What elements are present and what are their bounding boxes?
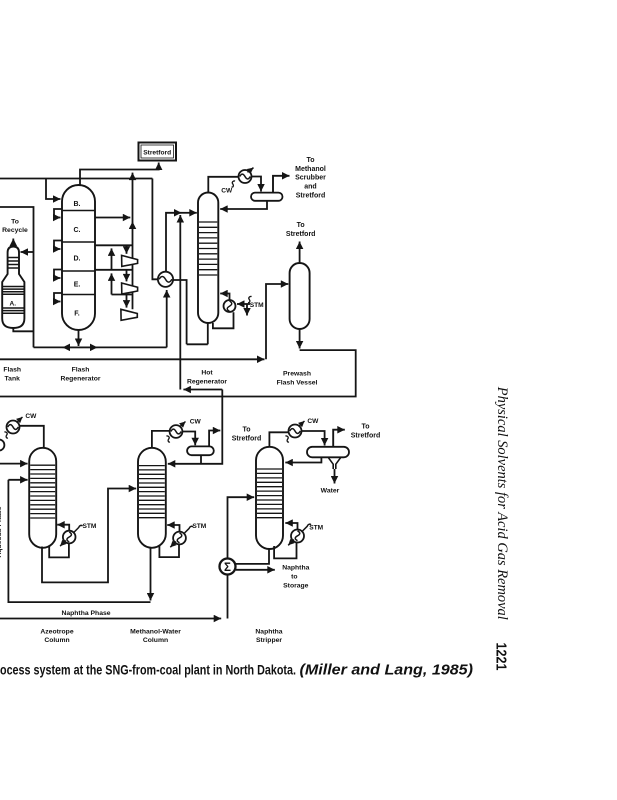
wire: mixer to naphtha stripper feed	[228, 497, 255, 558]
label: To Stretford (stripper)	[351, 424, 381, 440]
svg-text:Stretford: Stretford	[286, 231, 316, 238]
azeotrope column packing	[30, 465, 55, 518]
svg-text:Recycle: Recycle	[2, 227, 28, 234]
reboiler E3 (steam)	[224, 300, 236, 312]
svg-text:CW: CW	[25, 413, 37, 420]
label: Hot Regenerator	[187, 370, 227, 386]
svg-text:F.: F.	[74, 311, 80, 318]
wire: branch y389.5 to riser	[183, 389, 222, 391]
wire: naphtha phase line	[0, 618, 221, 620]
svg-text:Storage: Storage	[283, 582, 309, 589]
wire: MW overhead to condenser	[152, 431, 169, 448]
arrow: water out	[334, 469, 336, 484]
condenser E2 (CW)	[239, 170, 252, 183]
svg-text:STM: STM	[192, 523, 206, 530]
stripper condenser E8 (CW)	[289, 425, 302, 438]
wire: recycle riser x180.3 with arrow	[179, 215, 181, 390]
wire: cross exchanger to hot regenerator feed	[166, 213, 197, 272]
label: CW (hot regenerator condenser)	[221, 181, 235, 195]
wire: hot regenerator bottoms	[187, 323, 208, 344]
label: STM (stripper reboiler)	[309, 524, 323, 531]
hot regenerator column	[198, 193, 218, 324]
wire: lean solvent from cross exchanger left	[152, 179, 157, 280]
wire: divider extension y245.3	[95, 244, 133, 246]
wire: reflux return to hot regenerator	[220, 201, 267, 209]
wire: stripper condenser to water separator	[302, 431, 325, 446]
svg-text:STM: STM	[309, 524, 323, 531]
wire: flash tank bottoms	[13, 328, 33, 331]
stripper reboiler E9 (steam)	[288, 524, 311, 545]
svg-text:D.: D.	[74, 256, 81, 263]
wire: recycle loop rectangle	[0, 207, 34, 347]
arrow: vapor up 1	[111, 248, 113, 269]
label: Aqueous Phase (rotated)	[0, 506, 3, 557]
wire: azeotrope overhead to condenser	[20, 426, 44, 448]
svg-text:Naphtha: Naphtha	[282, 564, 309, 571]
svg-text:(Miller and Lang, 1985): (Miller and Lang, 1985)	[300, 661, 474, 678]
wire: rich solvent down to MW overhead junction and reflux	[168, 390, 223, 464]
reflux drum D1	[251, 193, 283, 201]
wire: MW distillate to stretford line	[209, 431, 220, 447]
svg-text:A.: A.	[10, 301, 17, 308]
wire: riser x132.5 with arrow into overhead line	[132, 173, 134, 310]
exchanger at page edge	[0, 439, 4, 450]
wire: stripped solvent header y359.3 to prewash vessel	[0, 358, 265, 360]
svg-text:Aqueous Phase: Aqueous Phase	[0, 506, 3, 557]
svg-text:Physical Solvents for Acid Gas: Physical Solvents for Acid Gas Removal	[494, 386, 510, 620]
svg-text:STM: STM	[250, 302, 264, 309]
arrow: stripper condenser vent	[299, 421, 305, 427]
wire: solvent return header y178.5	[0, 178, 152, 180]
wire: cross exchanger outlet right descender	[173, 280, 186, 344]
svg-text:Flash Vessel: Flash Vessel	[277, 380, 318, 387]
arrow: feed into flash regenerator section B	[46, 179, 61, 200]
svg-text:Flash: Flash	[3, 367, 21, 374]
label: Methanol-Water Column	[130, 629, 181, 644]
arrow: naphtha to storage	[236, 569, 275, 571]
wire: aqueous recycle line y602 to azeotrope feed	[8, 480, 150, 602]
MW reflux drum	[187, 446, 214, 455]
wire: divider extension y217.5 with arrow	[95, 217, 130, 219]
wire: steam line into reboiler	[237, 296, 252, 304]
arrow: recycle into flash tank	[21, 251, 34, 253]
wire: prewash feed riser	[266, 284, 288, 359]
MW reboiler E7 (steam)	[170, 526, 193, 547]
wire: azeotrope bottoms to MW column feed	[42, 489, 136, 583]
eductor 3	[121, 309, 137, 320]
svg-text:E.: E.	[74, 282, 81, 289]
arrow: condenser vent	[248, 168, 254, 173]
wire: azeotrope reboiler loop	[49, 543, 69, 558]
svg-text:Regenerator: Regenerator	[187, 379, 227, 386]
svg-text:Column: Column	[44, 637, 69, 644]
caption: figure caption	[0, 661, 473, 678]
svg-text:Flash: Flash	[72, 367, 90, 374]
label: To Recycle	[2, 219, 28, 235]
svg-text:To: To	[306, 157, 314, 164]
label: To Methanol Scrubber and Stretford	[295, 157, 326, 200]
wire: hot regenerator reboiler loop	[213, 312, 234, 328]
svg-text:Stretford: Stretford	[232, 435, 262, 442]
arrow: flash tank vent to recycle	[12, 239, 14, 247]
naphtha stripper column	[256, 447, 283, 549]
cross heat exchanger E1	[158, 272, 173, 287]
label: Flash Regenerator	[60, 367, 100, 383]
svg-text:Regenerator: Regenerator	[60, 376, 100, 383]
label: STM (azeotrope reboiler)	[82, 523, 96, 530]
label: Naphtha Stripper	[255, 629, 282, 644]
label: Naphtha to Storage	[282, 564, 309, 589]
svg-text:To: To	[11, 219, 19, 226]
wire: flash regenerator overhead to stretford box	[80, 163, 159, 187]
label: STM (hot regenerator reboiler)	[250, 302, 264, 309]
wire: hot regenerator overhead to condenser	[208, 177, 238, 193]
label: Water	[321, 488, 340, 495]
arrow: prewash bottoms down	[299, 329, 301, 349]
arrow: flash regenerator bottoms down	[78, 330, 80, 346]
svg-text:Azeotrope: Azeotrope	[40, 629, 73, 636]
arrow: MW condenser vent	[180, 422, 186, 428]
wire: divider extension y294.5 (lower)	[112, 294, 133, 296]
svg-text:Column: Column	[143, 637, 168, 644]
page number 1221 (rotated)	[493, 643, 510, 671]
svg-text:STM: STM	[82, 523, 96, 530]
wire: stripper reboiler loop	[274, 543, 296, 558]
svg-text:Naphtha Phase: Naphtha Phase	[61, 610, 110, 617]
svg-text:Tank: Tank	[5, 376, 21, 383]
methanol-water column	[138, 448, 166, 548]
methanol-water column packing	[139, 466, 165, 518]
naphtha stripper packing	[257, 469, 282, 518]
wire: riser from bottoms header into cross exchanger	[166, 290, 168, 347]
svg-text:CW: CW	[221, 188, 233, 195]
mixer (sigma)	[220, 559, 236, 575]
wires: flash regenerator side downcomer hooks	[54, 209, 62, 302]
wire: stripper reboiler return	[285, 523, 297, 530]
azeotrope reboiler E5 (steam)	[60, 525, 82, 546]
wire: stripper overhead to condenser	[269, 432, 288, 447]
svg-text:and: and	[304, 184, 316, 191]
arrow: azeotrope feed 2 (aqueous phase)	[8, 479, 27, 481]
svg-text:To: To	[242, 427, 250, 434]
stretford box	[139, 143, 177, 161]
wire: MW bottoms down	[150, 548, 152, 601]
svg-text:Methanol: Methanol	[295, 166, 326, 173]
svg-text:Stretford: Stretford	[296, 193, 326, 200]
label: CW (azeotrope condenser)	[4, 413, 37, 438]
svg-text:B.: B.	[74, 201, 81, 208]
arrow: azeotrope condenser vent	[17, 417, 23, 423]
svg-text:to: to	[291, 573, 297, 580]
running head: Physical Solvents for Acid Gas Removal (rotated)	[494, 386, 510, 620]
wire: regenerator bottoms header y347.4	[34, 346, 167, 348]
svg-text:1221: 1221	[493, 643, 510, 671]
wire: naphtha riser to mixer	[227, 575, 229, 619]
svg-text:Σ: Σ	[224, 562, 231, 574]
arrow: down into eductor 1	[126, 245, 128, 254]
svg-text:CW: CW	[307, 418, 319, 425]
label: Naphtha Phase	[61, 610, 110, 617]
svg-text:To: To	[297, 222, 305, 229]
svg-text:Water: Water	[321, 488, 340, 495]
svg-text:Stretford: Stretford	[143, 150, 171, 157]
svg-text:CW: CW	[190, 419, 202, 426]
svg-text:To: To	[361, 424, 369, 431]
svg-text:Scrubber: Scrubber	[295, 175, 326, 182]
arrow: down into eductor 2	[126, 270, 128, 282]
flash regenerator column	[62, 185, 95, 330]
azeotrope column	[29, 448, 56, 548]
wire: MW condenser to reflux drum	[182, 432, 195, 446]
svg-text:ocess system at the SNG-from-c: ocess system at the SNG-from-coal plant …	[0, 662, 296, 678]
hot regenerator packing	[199, 222, 217, 275]
wire: condenser to reflux drum	[252, 177, 262, 192]
arrow: down into eductor 3	[126, 295, 128, 308]
arrow: reboiler condensate down	[246, 304, 248, 316]
wire: reboiler vapor return	[220, 294, 229, 301]
eductor 1	[122, 255, 138, 266]
wire: azeotrope reboiler return	[57, 525, 69, 531]
label: Azeotrope Column	[40, 629, 73, 644]
svg-text:Methanol-Water: Methanol-Water	[130, 629, 181, 636]
label: Prewash Flash Vessel	[277, 371, 318, 387]
wire: prewash bottoms to main header	[0, 350, 356, 396]
wire: divider extension y269.8	[95, 269, 133, 271]
svg-text:Stripper: Stripper	[256, 637, 282, 644]
prewash flash vessel	[290, 263, 310, 329]
MW condenser E6 (CW)	[170, 425, 183, 438]
svg-text:Naphtha: Naphtha	[255, 629, 282, 636]
wire: drum overhead to methanol scrubber	[273, 176, 290, 193]
arrow: azeotrope feed 1	[0, 463, 28, 465]
svg-text:Hot: Hot	[201, 370, 213, 377]
wire: MW drum bottoms	[200, 455, 202, 464]
azeotrope condenser E4 (CW)	[7, 421, 20, 434]
label: CW (MW condenser)	[166, 419, 201, 443]
arrow: prewash overhead to stretford	[299, 242, 301, 264]
wire: MW reboiler loop	[159, 545, 179, 558]
wire: stripper bottoms into mixer	[236, 547, 269, 564]
svg-text:C.: C.	[74, 227, 81, 234]
svg-text:Stretford: Stretford	[351, 432, 381, 439]
flash tank vessel A	[2, 247, 24, 329]
label: Flash Tank	[3, 367, 21, 383]
eductor 2	[122, 283, 138, 294]
water separator drum	[307, 447, 349, 469]
svg-text:Prewash: Prewash	[283, 371, 311, 378]
wire: MW reboiler return	[167, 525, 179, 532]
flash regenerator section dividers	[62, 211, 95, 295]
wire: separator overhead to stretford	[333, 430, 345, 447]
label: To Stretford (prewash)	[286, 222, 316, 238]
label: STM (MW reboiler)	[192, 523, 206, 530]
label: To Stretford (MW)	[232, 427, 262, 443]
label: CW (stripper condenser)	[285, 418, 319, 442]
wire: stripper reflux return	[285, 457, 321, 462]
labels: flash regenerator sections B C D E F	[74, 201, 81, 318]
arrow: vapor up 2	[111, 273, 113, 294]
